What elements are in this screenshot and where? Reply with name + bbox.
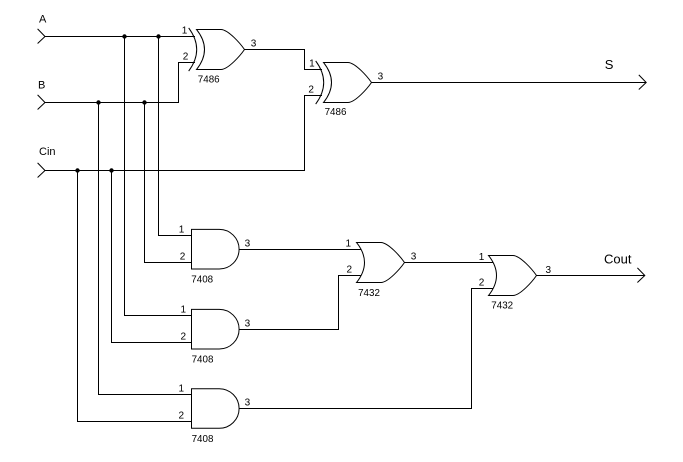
wire XOR2 out to S <box>372 82 646 84</box>
svg-text:7432: 7432 <box>491 300 513 311</box>
svg-text:1: 1 <box>345 238 351 249</box>
wire Cin to AND3 pin2 <box>78 171 194 422</box>
svg-text:2: 2 <box>180 251 186 262</box>
svg-text:Cout: Cout <box>604 252 632 267</box>
output S arrow <box>639 75 646 90</box>
svg-text:3: 3 <box>378 71 384 82</box>
xor-gate U2 input arc <box>316 61 324 104</box>
svg-text:S: S <box>605 57 614 72</box>
svg-text:1: 1 <box>178 383 184 394</box>
svg-text:A: A <box>39 13 47 25</box>
junction A/AND2 <box>122 34 126 38</box>
junction Cin/AND2 <box>109 168 113 172</box>
svg-text:3: 3 <box>245 238 251 249</box>
svg-text:2: 2 <box>346 264 352 275</box>
xor-gate U2 7486 body <box>324 62 372 102</box>
output Cout arrow <box>637 268 644 283</box>
wire AND1 out to OR1 pin1 <box>238 249 362 251</box>
wire AND3 out to OR2 pin2 <box>238 289 494 409</box>
and-gate U4 7408 body <box>192 309 240 349</box>
svg-text:7408: 7408 <box>192 434 214 445</box>
wire A to AND1 pin1 <box>159 37 194 236</box>
svg-text:1: 1 <box>182 25 188 36</box>
svg-text:7408: 7408 <box>192 355 214 366</box>
svg-text:2: 2 <box>178 410 184 421</box>
or-gate U7 7432 body <box>489 255 537 295</box>
svg-text:7486: 7486 <box>198 74 220 85</box>
wire B to AND3 pin1 <box>99 103 194 395</box>
wire OR1 out to OR2 pin1 <box>404 262 495 264</box>
svg-text:1: 1 <box>309 58 315 69</box>
svg-text:3: 3 <box>245 318 251 329</box>
xor-gate U1 input arc <box>189 28 197 71</box>
wire Cin to XOR2 pin2 <box>45 96 322 171</box>
input Cin arrow <box>38 163 45 178</box>
svg-text:2: 2 <box>308 84 314 95</box>
svg-text:3: 3 <box>411 251 417 262</box>
and-gate U3 7408 body <box>192 229 240 269</box>
svg-text:2: 2 <box>183 51 189 62</box>
or-gate U6 7432 body <box>357 242 405 282</box>
svg-text:3: 3 <box>251 39 257 50</box>
input B arrow <box>38 95 45 110</box>
xor-gate U1 7486 body <box>197 29 245 69</box>
wire Cin to AND2 pin2 <box>112 171 194 343</box>
svg-text:Cin: Cin <box>39 146 56 158</box>
junction A/AND1 <box>156 34 160 38</box>
input A arrow <box>38 29 45 44</box>
svg-text:1: 1 <box>179 224 185 235</box>
svg-text:2: 2 <box>479 278 485 289</box>
junction Cin/AND3 <box>75 168 79 172</box>
wire XOR1 out to XOR2 pin1 <box>245 50 323 70</box>
junction B/AND3 <box>96 100 100 104</box>
and-gate U5 7408 body <box>192 389 240 429</box>
wire B to XOR1 pin2 <box>45 63 195 103</box>
wire B to AND1 pin2 <box>145 103 194 263</box>
svg-text:2: 2 <box>180 331 186 342</box>
wire OR2 out to Cout <box>536 275 645 277</box>
svg-text:1: 1 <box>479 252 485 263</box>
svg-text:3: 3 <box>245 397 251 408</box>
svg-text:B: B <box>38 79 45 91</box>
svg-text:7486: 7486 <box>325 107 347 118</box>
svg-text:7432: 7432 <box>358 288 380 299</box>
svg-text:1: 1 <box>180 304 186 315</box>
svg-text:3: 3 <box>546 265 552 276</box>
wire A to AND2 pin1 <box>125 37 194 316</box>
svg-text:7408: 7408 <box>191 275 213 286</box>
wire AND2 out to OR1 pin2 <box>238 276 362 330</box>
junction B/AND1 <box>142 100 146 104</box>
wire A horizontal <box>45 36 195 38</box>
